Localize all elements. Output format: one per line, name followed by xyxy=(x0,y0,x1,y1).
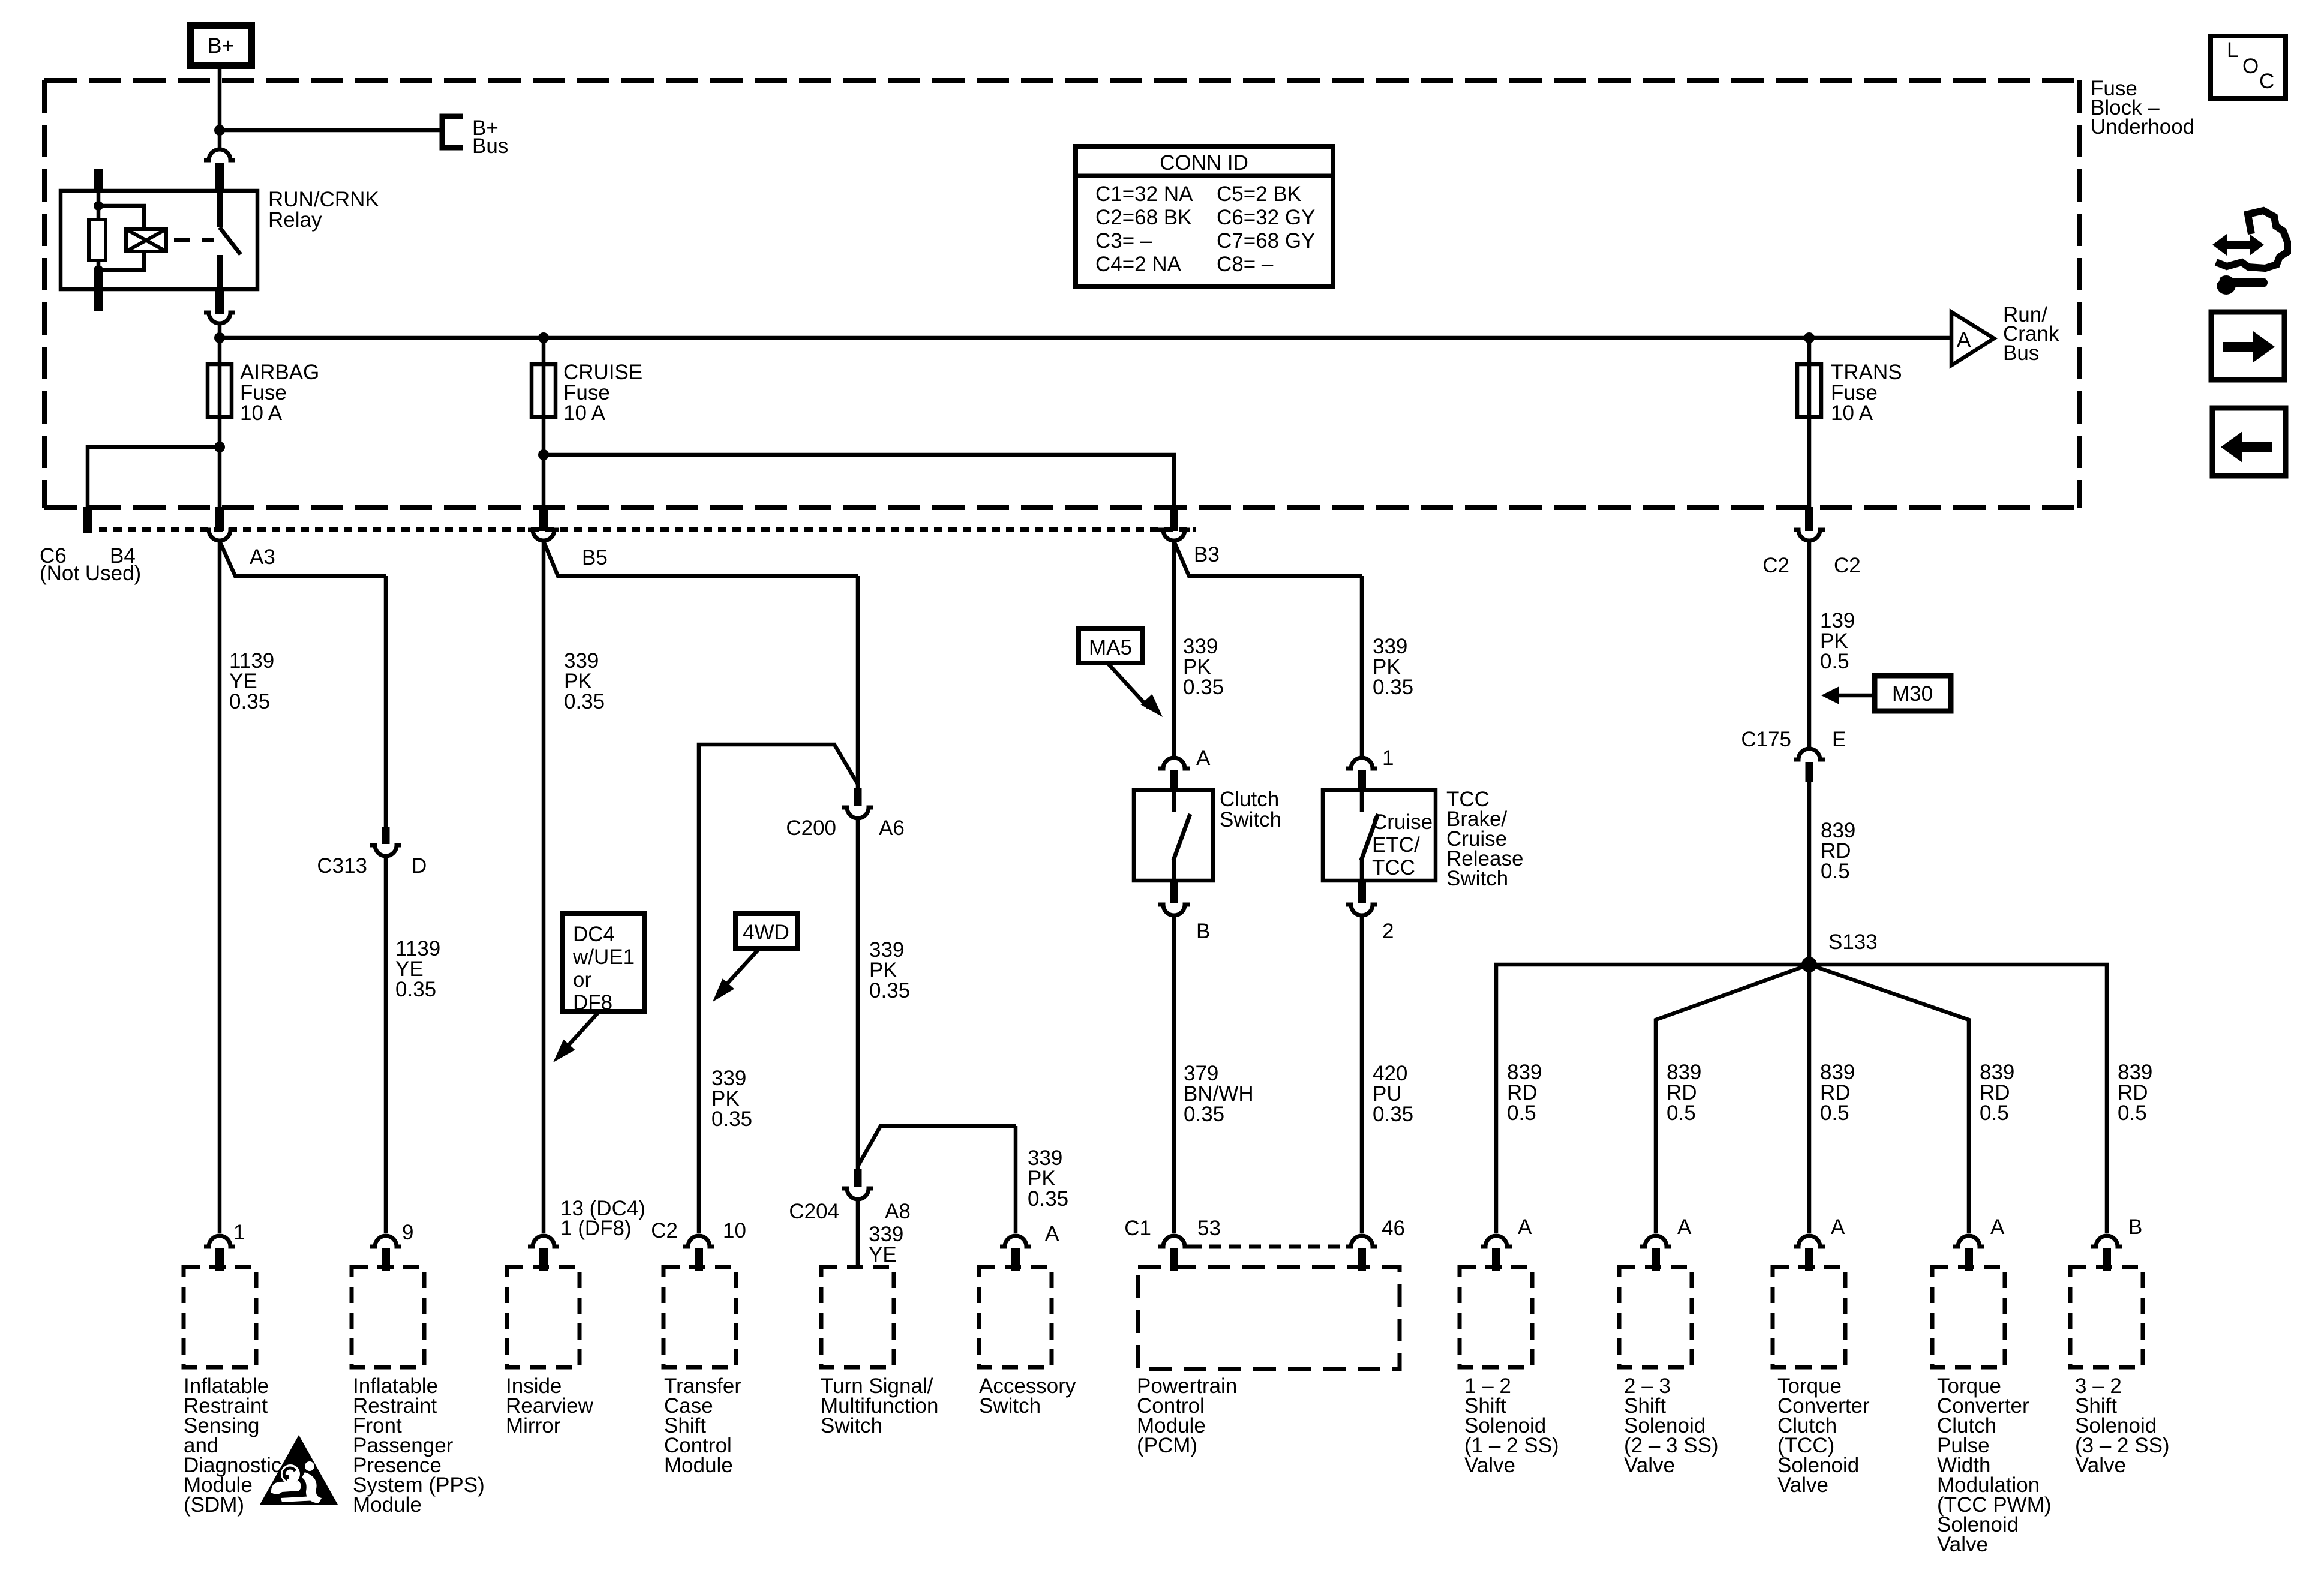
wire clutch to PCM xyxy=(1172,915,1176,1233)
connector relay pin 2 (bottom) xyxy=(204,313,235,323)
connector tcc pin 2 xyxy=(1358,881,1366,903)
MA5 arrow xyxy=(1109,664,1149,708)
connector PCM pin 46 xyxy=(1346,1236,1377,1247)
svg-text:C5=2 BK: C5=2 BK xyxy=(1217,182,1301,206)
wire S133 right diagonal xyxy=(1809,965,1969,1233)
node bus trans column xyxy=(1804,332,1815,343)
svg-text:S133: S133 xyxy=(1828,930,1878,954)
svg-text:10 A: 10 A xyxy=(1831,401,1873,425)
svg-text:DF8: DF8 xyxy=(573,991,612,1014)
module PPS dashed box xyxy=(352,1267,424,1367)
connector C200 xyxy=(842,807,873,818)
B+ power terminal box xyxy=(191,25,251,65)
svg-text:Switch: Switch xyxy=(1446,867,1508,890)
connector clutch pin A xyxy=(1158,758,1190,769)
relay RUN/CRNK box xyxy=(61,191,257,289)
relay output pin stub xyxy=(215,289,224,314)
relay coil winding box xyxy=(126,229,166,251)
wire C204 to turn signal switch xyxy=(856,1199,860,1267)
tcc switch blade xyxy=(1361,814,1378,860)
wire relay to bus xyxy=(218,323,222,340)
svg-text:0.35: 0.35 xyxy=(869,979,910,1002)
CONN ID table xyxy=(1076,146,1333,287)
svg-text:0.35: 0.35 xyxy=(1373,676,1413,699)
connector relay pin 1 (top) xyxy=(204,149,235,160)
svg-text:1: 1 xyxy=(1382,746,1394,770)
node below cruise fuse xyxy=(538,449,549,460)
svg-text:C1: C1 xyxy=(1124,1217,1151,1240)
wire bus to trans fuse xyxy=(1807,338,1812,364)
connector A3 fuse block xyxy=(215,507,224,531)
wire branch to C313 xyxy=(384,576,388,827)
wire tcc to PCM xyxy=(1360,915,1364,1233)
svg-text:C175: C175 xyxy=(1741,728,1791,751)
node B+ junction xyxy=(214,125,225,136)
MA5 box xyxy=(1079,629,1143,663)
connector C175 (mirrored) xyxy=(1794,749,1825,760)
connector C200 stub xyxy=(854,788,862,806)
wire run/crank bus xyxy=(220,336,1951,340)
svg-text:9: 9 xyxy=(402,1221,413,1244)
wire coil bottom branch xyxy=(98,251,144,270)
node relay bottom xyxy=(94,265,103,275)
svg-text:Valve: Valve xyxy=(1464,1454,1515,1477)
svg-text:Valve: Valve xyxy=(1937,1533,1988,1556)
svg-text:0.5: 0.5 xyxy=(1821,860,1850,883)
svg-text:A: A xyxy=(1045,1222,1059,1245)
svg-text:Switch: Switch xyxy=(1220,808,1281,831)
svg-text:C200: C200 xyxy=(786,816,836,840)
clutch switch blade xyxy=(1173,814,1190,860)
svg-text:Module: Module xyxy=(353,1493,422,1517)
svg-text:10: 10 xyxy=(723,1219,746,1242)
PCM connector dotted link xyxy=(1190,1245,1346,1249)
svg-text:(PCM): (PCM) xyxy=(1137,1434,1197,1457)
svg-text:E: E xyxy=(1832,728,1846,751)
wire airbag fuse down xyxy=(218,417,222,509)
svg-text:Valve: Valve xyxy=(1777,1473,1828,1497)
fuse block dashed border left xyxy=(42,80,47,508)
fuse AIRBAG 10A xyxy=(208,364,232,417)
wire A3 down to SDM xyxy=(218,540,222,1233)
connector mirror pin xyxy=(528,1236,559,1247)
svg-text:0.35: 0.35 xyxy=(1184,1103,1224,1126)
wire coil top branch xyxy=(98,206,144,229)
connector transfer case pin xyxy=(683,1236,714,1247)
svg-text:46: 46 xyxy=(1382,1217,1405,1240)
connector tcc pin 1 xyxy=(1346,758,1377,769)
svg-text:ETC/: ETC/ xyxy=(1372,833,1420,857)
svg-text:A: A xyxy=(1677,1215,1692,1239)
switch clutch box xyxy=(1134,790,1213,881)
svg-text:C2: C2 xyxy=(651,1219,678,1242)
wire branch to C6 cavity xyxy=(88,447,220,509)
svg-text:D: D xyxy=(412,854,427,878)
M30 arrow xyxy=(1837,694,1875,698)
svg-text:A: A xyxy=(1831,1215,1845,1239)
svg-text:Valve: Valve xyxy=(1624,1454,1675,1477)
svg-text:C6=32 GY: C6=32 GY xyxy=(1217,206,1315,229)
svg-text:A3: A3 xyxy=(250,545,275,569)
wire accessory branch xyxy=(858,1126,1016,1166)
svg-text:Bus: Bus xyxy=(2003,341,2039,365)
connector B3 fuse block xyxy=(1170,507,1178,531)
svg-text:MA5: MA5 xyxy=(1089,636,1132,659)
svg-text:Bus: Bus xyxy=(472,134,508,158)
wire B3 branch diagonal xyxy=(1174,541,1362,576)
svg-text:B+: B+ xyxy=(208,34,234,58)
svg-text:L: L xyxy=(2227,38,2238,62)
svg-text:0.35: 0.35 xyxy=(1028,1187,1068,1211)
wire to TCC switch xyxy=(1360,576,1364,756)
svg-text:1: 1 xyxy=(233,1221,245,1244)
svg-text:A6: A6 xyxy=(879,816,905,840)
connector C204 stub xyxy=(854,1169,862,1187)
module 3-2 shift solenoid dashed box xyxy=(2070,1267,2143,1367)
fuse block - underhood dashed border top xyxy=(44,78,2079,83)
clutch switch contact top xyxy=(1172,790,1176,812)
wire C2 down xyxy=(1807,540,1812,749)
svg-text:(Not Used): (Not Used) xyxy=(40,562,141,585)
wire cruise fuse down xyxy=(542,417,546,509)
wire A3 branch diagonal xyxy=(220,541,386,576)
node bus A3 column xyxy=(214,332,225,343)
B+ bus bar symbol xyxy=(442,116,463,148)
svg-text:0.5: 0.5 xyxy=(2118,1101,2147,1125)
clutch switch contact bottom xyxy=(1172,860,1176,881)
svg-text:0.35: 0.35 xyxy=(395,978,436,1001)
svg-text:C7=68 GY: C7=68 GY xyxy=(1217,229,1315,253)
svg-text:0.5: 0.5 xyxy=(1667,1101,1696,1125)
svg-text:Switch: Switch xyxy=(821,1414,882,1437)
tcc switch contact bottom xyxy=(1360,860,1364,881)
wire to C200 xyxy=(856,576,860,788)
svg-text:C2=68 BK: C2=68 BK xyxy=(1095,206,1192,229)
connector 2-3 shift solenoid pin A xyxy=(1640,1236,1671,1247)
connector row dotted line xyxy=(99,527,1196,532)
svg-text:C8= –: C8= – xyxy=(1217,253,1274,276)
svg-text:0.35: 0.35 xyxy=(564,690,605,713)
svg-text:C3= –: C3= – xyxy=(1095,229,1152,253)
module PCM dashed box xyxy=(1138,1267,1400,1369)
svg-text:Mirror: Mirror xyxy=(506,1414,561,1437)
4WD arrow xyxy=(727,948,759,984)
wire branch cruise to B3 xyxy=(544,455,1174,509)
svg-text:Relay: Relay xyxy=(268,208,322,232)
wire S133 left diagonal xyxy=(1656,965,1809,1233)
fuse TRANS 10A xyxy=(1797,364,1821,417)
svg-text:0.35: 0.35 xyxy=(229,690,270,713)
wire B5 branch diagonal xyxy=(544,541,858,576)
relay coil pin bottom stub xyxy=(94,270,103,311)
wire S133 right horizontal xyxy=(1809,965,2107,1233)
connector clutch pin B xyxy=(1170,881,1178,903)
module 1-2 shift solenoid dashed box xyxy=(1460,1267,1532,1367)
wire B+ to junction xyxy=(218,69,222,133)
next page arrow icon xyxy=(2211,312,2284,380)
svg-text:or: or xyxy=(573,968,591,992)
LOC box icon xyxy=(2211,36,2286,98)
previous page arrow icon xyxy=(2212,408,2286,476)
svg-text:53: 53 xyxy=(1197,1217,1221,1240)
svg-text:C2: C2 xyxy=(1762,554,1789,577)
module mirror dashed box xyxy=(507,1267,580,1367)
svg-text:B: B xyxy=(1196,920,1210,943)
svg-text:4WD: 4WD xyxy=(743,921,789,944)
wire C313 to PPS xyxy=(384,856,388,1233)
wire trans fuse down xyxy=(1807,417,1812,509)
wire S133 left horizontal xyxy=(1496,965,1809,1233)
module TCC solenoid dashed box xyxy=(1773,1267,1845,1367)
svg-text:O: O xyxy=(2242,55,2259,78)
connector 3-2 shift solenoid pin B xyxy=(2091,1236,2122,1247)
node relay top xyxy=(94,201,103,211)
module SDM dashed box xyxy=(184,1267,256,1367)
svg-text:0.35: 0.35 xyxy=(711,1107,752,1131)
connector C313 xyxy=(370,845,401,856)
svg-text:10 A: 10 A xyxy=(240,401,283,425)
resistor relay suppression xyxy=(89,220,106,260)
SRS warning triangle xyxy=(260,1435,338,1505)
svg-text:YE: YE xyxy=(869,1243,897,1266)
svg-text:C: C xyxy=(2259,70,2274,93)
wire to B+ bus xyxy=(220,128,441,133)
svg-text:C313: C313 xyxy=(317,854,367,878)
wire C175 to S133 xyxy=(1807,782,1812,965)
connector SDM pin xyxy=(204,1236,235,1247)
svg-text:A: A xyxy=(1196,746,1211,770)
svg-text:(SDM): (SDM) xyxy=(184,1493,244,1517)
fuse CRUISE 10A xyxy=(532,364,556,417)
wire bus to airbag fuse xyxy=(218,338,222,364)
M30 box xyxy=(1875,676,1951,711)
relay switch common stub xyxy=(217,191,223,227)
connector TCC solenoid pin A xyxy=(1794,1236,1825,1247)
svg-text:10 A: 10 A xyxy=(563,401,606,425)
svg-text:0.5: 0.5 xyxy=(1507,1101,1536,1125)
svg-text:0.35: 0.35 xyxy=(1183,676,1224,699)
node bus cruise column xyxy=(538,332,549,343)
connector B5 fuse block xyxy=(539,507,548,531)
svg-text:0.5: 0.5 xyxy=(1820,1101,1849,1125)
svg-text:A: A xyxy=(1518,1215,1532,1239)
fuse block dashed border bottom xyxy=(44,505,2079,510)
DC4 option box xyxy=(562,914,645,1011)
svg-text:C204: C204 xyxy=(789,1200,839,1223)
wire bus to cruise fuse xyxy=(542,338,546,364)
splice S133 xyxy=(1801,957,1817,972)
relay switch output stub xyxy=(217,255,223,289)
svg-text:Module: Module xyxy=(664,1454,733,1477)
svg-text:2: 2 xyxy=(1382,920,1394,943)
connector 1-2 shift solenoid pin A xyxy=(1481,1236,1512,1247)
connector PCM pin 53 xyxy=(1158,1236,1190,1247)
svg-text:1 (DF8): 1 (DF8) xyxy=(560,1217,632,1240)
svg-text:B: B xyxy=(2128,1215,2142,1239)
DC4 arrow xyxy=(567,1011,600,1047)
module transfer case dashed box xyxy=(663,1267,736,1367)
connector C204 xyxy=(842,1188,873,1199)
module turn signal dashed box xyxy=(821,1267,894,1367)
svg-text:TCC: TCC xyxy=(1372,856,1415,879)
wire accessory down xyxy=(1014,1126,1018,1233)
svg-text:C1=32 NA: C1=32 NA xyxy=(1095,182,1193,206)
svg-text:DC4: DC4 xyxy=(573,923,615,946)
svg-text:w/UE1: w/UE1 xyxy=(572,945,635,969)
svg-text:CONN ID: CONN ID xyxy=(1160,151,1248,175)
connector accessory pin xyxy=(1000,1236,1031,1247)
wire S133 center down xyxy=(1807,965,1812,1233)
wire branch transfer case xyxy=(699,745,858,1233)
module TCC PWM solenoid dashed box xyxy=(1932,1267,2005,1367)
off-page triangle A run/crank bus xyxy=(1951,312,1994,365)
terminal C6 not used stub xyxy=(83,507,92,533)
switch tcc brake/cruise box xyxy=(1323,790,1436,881)
relay actuator dashed link xyxy=(174,238,214,242)
svg-text:M30: M30 xyxy=(1892,682,1933,706)
wire C200 to C204 xyxy=(856,818,860,1169)
connector TCC PWM solenoid pin A xyxy=(1953,1236,1984,1247)
svg-text:A: A xyxy=(1990,1215,2005,1239)
svg-text:Cruise: Cruise xyxy=(1372,810,1433,834)
wire B5 down to mirror xyxy=(542,540,546,1233)
module accessory dashed box xyxy=(979,1267,1052,1367)
svg-text:Valve: Valve xyxy=(2075,1454,2126,1477)
wire B3 down to clutch xyxy=(1172,540,1176,756)
svg-text:C4=2 NA: C4=2 NA xyxy=(1095,253,1182,276)
svg-text:Underhood: Underhood xyxy=(2091,115,2194,139)
connector PPS pin xyxy=(370,1236,401,1247)
4WD option box xyxy=(735,914,797,948)
wire relay resistor bottom xyxy=(97,260,101,271)
svg-text:B5: B5 xyxy=(582,546,608,569)
relay switch blade xyxy=(220,227,241,254)
svg-text:0.35: 0.35 xyxy=(1373,1103,1413,1126)
svg-text:0.5: 0.5 xyxy=(1820,650,1849,673)
svg-text:A8: A8 xyxy=(885,1200,911,1223)
svg-text:C2: C2 xyxy=(1834,554,1861,577)
wire junction to relay xyxy=(218,130,222,150)
relay coil pin top stub xyxy=(94,169,103,192)
node below airbag fuse xyxy=(214,442,225,452)
tcc switch contact top xyxy=(1360,790,1364,812)
svg-text:A: A xyxy=(1957,328,1971,352)
connector C313 stub xyxy=(382,827,390,844)
fuse block dashed border right xyxy=(2077,80,2082,508)
svg-text:Switch: Switch xyxy=(979,1394,1041,1418)
module 2-3 shift solenoid dashed box xyxy=(1619,1267,1692,1367)
wire relay resistor top xyxy=(97,191,101,220)
svg-text:0.5: 0.5 xyxy=(1980,1101,2009,1125)
connector C2 fuse block xyxy=(1805,507,1813,531)
power distribution icon xyxy=(2212,234,2264,256)
svg-text:B3: B3 xyxy=(1194,543,1220,566)
